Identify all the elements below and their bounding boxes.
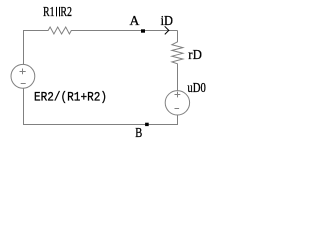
svg-text:rD: rD <box>188 48 202 63</box>
svg-text:B: B <box>135 126 142 141</box>
svg-text:ER2/(R1+R2): ER2/(R1+R2) <box>34 90 107 105</box>
svg-text:R2: R2 <box>60 5 72 20</box>
svg-text:R1: R1 <box>43 5 55 20</box>
svg-text:uD0: uD0 <box>187 81 206 96</box>
svg-text:iD: iD <box>161 14 173 29</box>
svg-text:A: A <box>130 14 141 29</box>
